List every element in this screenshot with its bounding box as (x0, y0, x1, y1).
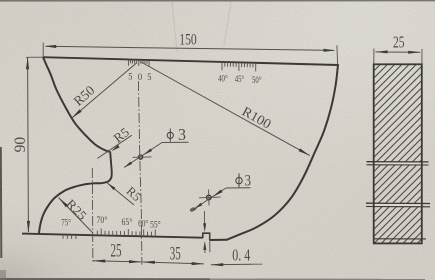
svg-text:45°: 45° (235, 74, 245, 84)
svg-text:3: 3 (178, 125, 186, 144)
side view scribe line bottom (374, 238, 426, 240)
photo bottom border (0, 270, 425, 280)
svg-text:25: 25 (393, 33, 405, 52)
svg-text:75°: 75° (61, 217, 71, 227)
angle scale 40-45-50 degrees below top edge (218, 62, 262, 85)
side view hatched bar (174, 54, 435, 249)
side view scribe band 2 (366, 203, 430, 207)
photo left border (0, 147, 2, 258)
dimension 150 with arrows and extension lines (43, 31, 337, 64)
leader R5 lower (108, 183, 144, 205)
svg-text:55°: 55° (150, 220, 161, 230)
dimension 0.4 step (203, 211, 262, 266)
svg-text:5: 5 (147, 72, 151, 83)
leader R100 (141, 62, 310, 156)
leader R50 (71, 63, 137, 118)
vertical dash-dot line at 25-dim (91, 168, 94, 264)
part outline (main view) (22, 57, 338, 240)
leader R5 upper (97, 124, 132, 158)
svg-text:25: 25 (111, 241, 122, 262)
svg-text:35: 35 (170, 243, 181, 264)
side view scribe band 1 (367, 162, 429, 165)
vertical dash-dot centerline (138, 81, 142, 265)
svg-text:90: 90 (12, 137, 29, 153)
svg-text:0. 4: 0. 4 (232, 246, 250, 265)
dimension 25 bottom (93, 241, 141, 264)
leader R25 (59, 197, 93, 233)
angle scale 55-75 degrees at bottom edge (61, 215, 161, 239)
svg-text:65°: 65° (122, 217, 133, 227)
dimension 90 with arrows (12, 57, 43, 233)
svg-text:40°: 40° (218, 73, 228, 83)
svg-text:70°: 70° (97, 215, 108, 225)
dimension 35 bottom (143, 243, 204, 265)
svg-text:5: 5 (128, 72, 132, 83)
hole phi-3 upper with leader (124, 125, 189, 167)
dimension 25 side view (374, 33, 422, 65)
photo top border (0, 0, 435, 2)
svg-text:60°: 60° (138, 219, 149, 229)
vernier scale 5-0-5 below top edge (128, 60, 151, 84)
hole phi-3 lower with leader (190, 172, 251, 211)
svg-text:50°: 50° (252, 75, 262, 85)
svg-text:150: 150 (179, 31, 197, 48)
paper crease faint (172, 2, 231, 52)
svg-text:3: 3 (244, 172, 251, 189)
